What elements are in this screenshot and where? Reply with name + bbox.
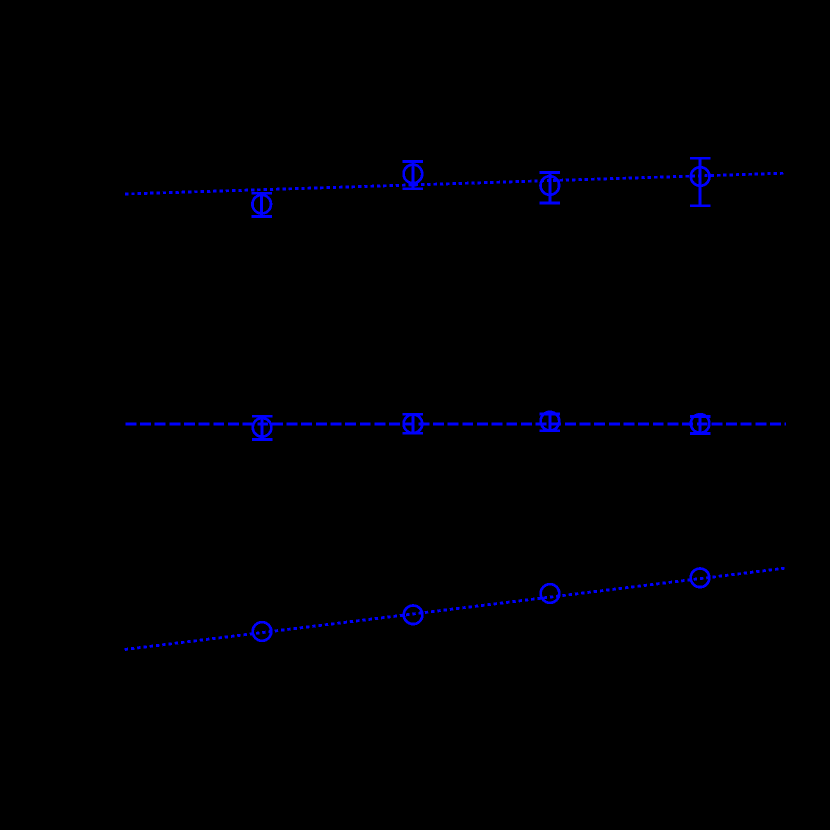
series A point 2 marker <box>404 165 423 184</box>
series B point 4 marker <box>691 414 710 433</box>
series B point 4 error bar <box>690 416 710 433</box>
series B point 1 error bar <box>252 416 272 439</box>
series B point 2 error bar <box>403 414 423 433</box>
series C point 4 marker <box>691 569 710 588</box>
series B point 3 marker <box>541 412 560 431</box>
series A point 3 marker <box>541 176 560 195</box>
series C point 3 marker <box>541 584 560 603</box>
series B point 2 marker <box>404 415 423 434</box>
series A point 3 error bar <box>540 172 560 203</box>
series A trend line (dotted) <box>125 173 784 194</box>
series C point 1 marker <box>253 622 272 641</box>
series A point 4 marker <box>691 167 710 186</box>
series B point 1 marker <box>253 418 272 437</box>
series C point 2 marker <box>404 606 423 625</box>
series A point 1 error bar <box>252 193 272 216</box>
series A point 2 error bar <box>403 161 423 188</box>
series A point 4 error bar <box>690 158 710 205</box>
series B point 3 error bar <box>540 414 560 431</box>
series B trend line (dashed) <box>125 423 786 426</box>
series C trend line (dotted) <box>125 568 785 649</box>
series A point 1 marker <box>252 195 271 214</box>
